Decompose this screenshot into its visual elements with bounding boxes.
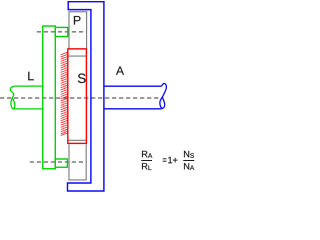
carrier link bar L bbox=[43, 26, 56, 169]
sun gear S inner bottom line bbox=[68, 139, 86, 141]
formula R_L bbox=[142, 163, 151, 170]
sun gear S outline bbox=[68, 49, 87, 143]
fraction bar left bbox=[141, 160, 152, 162]
formula digit one bbox=[168, 157, 172, 163]
fraction bar right bbox=[183, 160, 194, 162]
formula N_A bbox=[184, 163, 194, 170]
bottom planet axis centerline bbox=[30, 161, 87, 163]
top planet axis centerline bbox=[37, 31, 87, 33]
label P bbox=[74, 16, 81, 25]
formula R_A bbox=[142, 151, 152, 158]
right output shaft A top line bbox=[104, 85, 162, 87]
right shaft break squiggle bbox=[160, 83, 167, 108]
formula equals sign bbox=[163, 158, 167, 160]
label S bbox=[78, 74, 86, 83]
sun gear S inner top line bbox=[68, 55, 86, 57]
formula plus sign bbox=[173, 158, 177, 163]
carrier top planet pin tab bbox=[55, 27, 67, 36]
left shaft break squiggle bbox=[10, 86, 14, 109]
main axis centerline bbox=[0, 97, 160, 99]
ground hatching of fixed sun gear bbox=[61, 52, 68, 136]
label L bbox=[28, 72, 33, 81]
label A bbox=[116, 66, 124, 74]
planet gear P box (top) bbox=[69, 12, 87, 49]
formula N_S bbox=[184, 151, 194, 158]
left input shaft L top line bbox=[14, 85, 42, 87]
planet gear box (bottom) bbox=[69, 144, 86, 180]
right output shaft A bottom line bbox=[104, 108, 162, 110]
carrier bottom planet pin tab bbox=[55, 159, 67, 167]
left input shaft L bottom line bbox=[13, 108, 43, 110]
annulus ring A outline bbox=[68, 2, 104, 191]
